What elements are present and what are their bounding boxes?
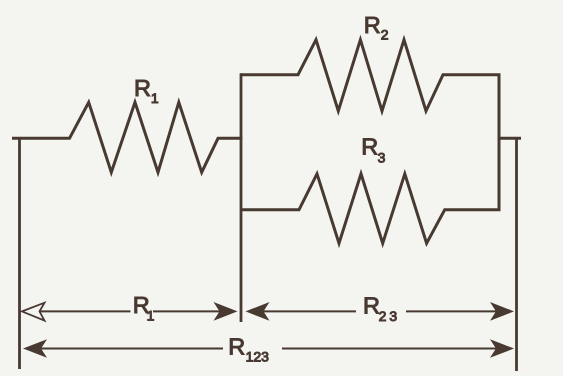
- svg-text:1: 1: [147, 308, 155, 324]
- dimension R1: open arrowhead left: [22, 303, 45, 321]
- dimension R23: filled arrowhead right: [490, 302, 514, 321]
- svg-text:3: 3: [378, 149, 386, 165]
- svg-text:1: 1: [151, 90, 159, 106]
- wire: center vertical from box left edge down to dimension area: [240, 73, 243, 322]
- wire: right stub from box to right terminal: [499, 137, 521, 140]
- svg-text:R: R: [361, 133, 378, 159]
- dimension R123: left shaft: [41, 348, 223, 350]
- node A: left terminal vertical line: [18, 137, 21, 369]
- dimension R23: left shaft: [264, 310, 357, 312]
- dimension R23: filled arrowhead left: [246, 302, 270, 321]
- dimension R123: filled arrowhead left: [23, 339, 47, 358]
- svg-text:R: R: [363, 293, 380, 319]
- dimension R1: right shaft: [153, 310, 221, 312]
- dimension R123: filled arrowhead right: [490, 339, 514, 358]
- dimension R1: left shaft: [40, 310, 131, 312]
- dimension R123: right shaft: [282, 348, 497, 350]
- svg-text:23: 23: [379, 308, 401, 324]
- svg-text:R: R: [134, 75, 151, 101]
- dimension R23: right shaft: [406, 310, 497, 312]
- node B: right terminal vertical line: [515, 137, 518, 371]
- wire left stub + resistor R1 zigzag + wire to node: [12, 102, 243, 172]
- wire: parallel box with resistor R2 (top) and resistor R3 (bottom): [241, 40, 499, 244]
- svg-text:2: 2: [381, 26, 389, 42]
- svg-text:R: R: [364, 12, 381, 38]
- dimension R1: filled arrowhead right: [214, 302, 238, 321]
- svg-text:R: R: [228, 334, 245, 360]
- svg-text:123: 123: [246, 349, 270, 365]
